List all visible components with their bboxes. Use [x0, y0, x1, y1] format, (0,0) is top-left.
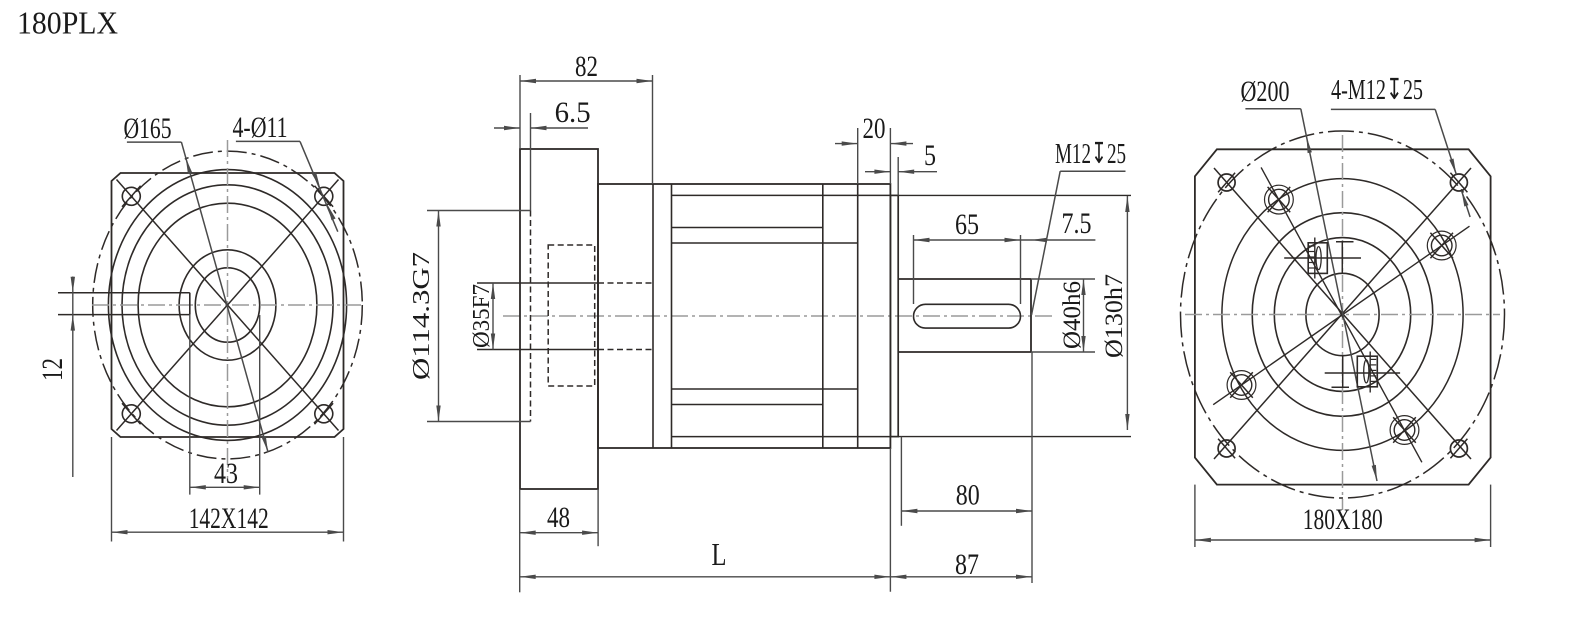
svg-text:80: 80: [956, 479, 980, 512]
svg-text:6.5: 6.5: [555, 96, 591, 129]
svg-text:87: 87: [955, 548, 979, 581]
svg-text:Ø165: Ø165: [124, 112, 172, 145]
svg-text:Ø35F7: Ø35F7: [469, 284, 495, 348]
svg-text:48: 48: [547, 501, 570, 534]
svg-text:180PLX: 180PLX: [17, 5, 118, 41]
svg-text:M12↧25: M12↧25: [1055, 138, 1126, 170]
svg-text:Ø40h6: Ø40h6: [1059, 281, 1086, 349]
svg-text:4-M12↧25: 4-M12↧25: [1331, 74, 1423, 106]
svg-text:65: 65: [955, 208, 979, 241]
svg-text:5: 5: [924, 139, 936, 172]
svg-text:Ø130h7: Ø130h7: [1101, 274, 1128, 358]
svg-text:12: 12: [36, 358, 69, 381]
svg-text:180X180: 180X180: [1303, 503, 1383, 536]
svg-text:20: 20: [863, 112, 886, 145]
svg-text:7.5: 7.5: [1062, 207, 1092, 240]
svg-text:Ø200: Ø200: [1241, 75, 1290, 108]
svg-text:L: L: [712, 536, 727, 572]
svg-text:43: 43: [214, 457, 238, 490]
svg-text:142X142: 142X142: [189, 502, 269, 535]
svg-text:82: 82: [575, 50, 598, 83]
svg-text:4-Ø11: 4-Ø11: [233, 111, 288, 144]
svg-text:Ø114.3G7: Ø114.3G7: [409, 252, 435, 380]
